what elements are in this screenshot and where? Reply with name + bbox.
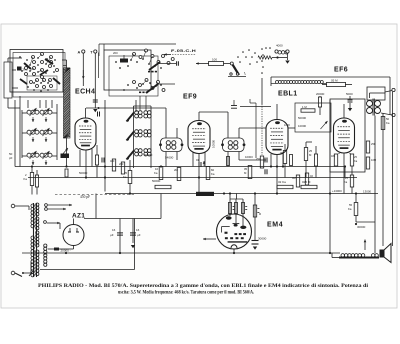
svg-text:PHILIPS RADIO - Mod. BI 570/: PHILIPS RADIO - Mod. BI 570/A. Supereter… — [38, 284, 369, 289]
svg-text:pF: pF — [9, 156, 13, 160]
svg-text:5000: 5000 — [346, 92, 353, 96]
svg-text:4000: 4000 — [276, 44, 283, 48]
svg-text:Ka: Ka — [24, 177, 28, 181]
svg-text:EM4: EM4 — [267, 222, 283, 229]
svg-text:A: A — [78, 51, 81, 55]
svg-text:20000: 20000 — [316, 92, 325, 96]
svg-text:+13000: +13000 — [332, 189, 342, 193]
svg-text:400: 400 — [110, 159, 115, 163]
svg-text:1000: 1000 — [284, 123, 290, 127]
svg-text:32 Ka: 32 Ka — [278, 180, 286, 184]
svg-text:AZ1: AZ1 — [72, 213, 85, 220]
svg-text:200: 200 — [113, 51, 118, 55]
svg-text:Ka: Ka — [344, 180, 348, 184]
svg-text:1 M: 1 M — [302, 105, 307, 109]
svg-text:Ka: Ka — [123, 175, 127, 179]
svg-text:Ka: Ka — [211, 172, 215, 176]
svg-text:30000: 30000 — [258, 237, 267, 241]
svg-text:025 M: 025 M — [302, 180, 311, 184]
svg-text:10000: 10000 — [298, 124, 306, 128]
svg-text:10000: 10000 — [212, 140, 216, 148]
svg-text:16: 16 — [136, 228, 140, 232]
svg-text:Ka: Ka — [154, 171, 158, 175]
svg-text:uscita: 3,5 W. Media freque: uscita: 3,5 W. Media frequenza: 468 kc/s… — [118, 291, 255, 296]
svg-text:450 pF: 450 pF — [80, 195, 90, 199]
svg-text:13000: 13000 — [363, 189, 371, 193]
svg-text:20000 -: 20000 - — [61, 248, 71, 252]
svg-text:30000: 30000 — [357, 225, 366, 229]
svg-text:Ka: Ka — [354, 159, 358, 163]
svg-text:50000: 50000 — [79, 171, 88, 175]
svg-text:50000: 50000 — [144, 153, 153, 157]
svg-text:200: 200 — [119, 162, 124, 166]
svg-text:100: 100 — [212, 58, 217, 62]
svg-text:ECH4: ECH4 — [75, 89, 95, 96]
svg-text:µF: µF — [137, 233, 141, 237]
svg-text:EF6: EF6 — [334, 67, 348, 74]
svg-text:EBL1: EBL1 — [278, 91, 298, 98]
svg-text:01: 01 — [196, 158, 200, 162]
svg-text:2M: 2M — [174, 168, 179, 172]
svg-text:05 M: 05 M — [331, 79, 338, 83]
svg-text:Ka: Ka — [386, 121, 390, 125]
svg-text:4M: 4M — [292, 176, 296, 180]
svg-text:µF: µF — [110, 233, 114, 237]
svg-text:50000: 50000 — [298, 116, 306, 120]
svg-text:180: 180 — [331, 155, 336, 158]
svg-text:EF9: EF9 — [183, 94, 197, 101]
svg-text:10000: 10000 — [245, 155, 253, 159]
svg-text:Ka: Ka — [348, 207, 352, 211]
svg-text:F-05-C-H: F-05-C-H — [171, 48, 196, 53]
svg-text:16: 16 — [112, 228, 116, 232]
svg-text:M: M — [259, 213, 261, 216]
